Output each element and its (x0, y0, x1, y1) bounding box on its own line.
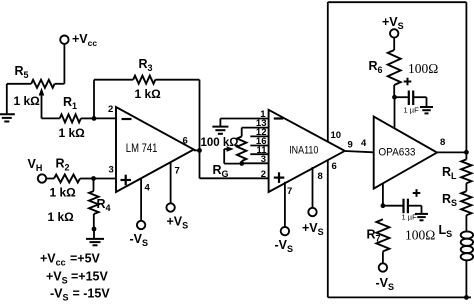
wire (55, 83, 65, 85)
wire (393, 85, 395, 97)
inductor LS (439, 223, 474, 260)
wire (241, 161, 243, 163)
node bottom junction (464, 295, 469, 300)
svg-text:7: 7 (175, 166, 180, 177)
svg-text:6: 6 (332, 161, 337, 172)
op-amp minus input (274, 117, 284, 119)
resistor R7 (367, 219, 390, 251)
svg-text:100 kΩ: 100 kΩ (201, 137, 239, 149)
resistor RL (442, 159, 472, 183)
svg-text:1 kΩ: 1 kΩ (135, 87, 162, 101)
op-amp U1 LM741 (116, 107, 194, 192)
wire (383, 205, 403, 207)
wire (199, 80, 201, 151)
wire pin 7 (170, 163, 172, 204)
wire pin 3 (242, 162, 269, 164)
label supply -VS (50, 286, 110, 302)
label supply +VS (46, 270, 109, 286)
resistor R5 (15, 64, 55, 88)
capacitor C2 1uF (404, 199, 408, 214)
svg-text:2: 2 (261, 169, 266, 180)
wire (382, 251, 384, 263)
svg-text:=+15V: =+15V (71, 270, 109, 284)
wire (93, 179, 95, 192)
ground (86, 239, 104, 245)
wire (413, 97, 426, 107)
resistor R6 (369, 50, 401, 85)
label pin 1 (260, 109, 266, 120)
wire pin 1 (220, 118, 268, 120)
capacitor C1 1uF (409, 91, 413, 106)
label R7 value (405, 228, 435, 243)
resistor R1 (60, 95, 81, 122)
wire R5 wiper (39, 88, 45, 119)
wire (395, 96, 409, 98)
label RG value (201, 137, 239, 149)
svg-text:8: 8 (318, 171, 323, 182)
node +Vcc terminal (60, 32, 97, 48)
node R6 junction (392, 95, 397, 100)
ground (415, 214, 428, 220)
wire (465, 2, 467, 152)
node VH terminal (28, 157, 47, 183)
wire (408, 206, 422, 214)
node RG junction (239, 161, 244, 166)
resistor R2 (54, 157, 80, 183)
label pin 7 (175, 166, 180, 177)
wire (465, 215, 467, 231)
wire (382, 183, 384, 205)
node +VS terminal (382, 15, 404, 38)
node LM741 output junction (197, 148, 202, 153)
wire (63, 44, 65, 84)
label pin 3 (261, 154, 266, 165)
label C2 polarity (413, 189, 421, 197)
label R6 value (408, 61, 438, 76)
ground (420, 107, 433, 113)
wire (94, 79, 133, 81)
op-amp plus input (121, 175, 132, 186)
label pin 11 (256, 145, 267, 156)
wire (81, 117, 94, 119)
svg-text:1 kΩ: 1 kΩ (48, 210, 75, 224)
wire (394, 97, 396, 128)
label R2 value (50, 186, 77, 200)
label pin 3 (109, 165, 114, 176)
svg-text:9: 9 (348, 140, 353, 151)
wire pin 4 (140, 179, 142, 221)
wire (465, 152, 467, 159)
svg-text:OPA633: OPA633 (378, 146, 415, 158)
resistor R4 (89, 191, 111, 214)
node -VS terminal (130, 221, 149, 248)
wire pin 8 (312, 167, 314, 208)
op-amp U2 INA110 (269, 110, 345, 192)
wire (94, 117, 116, 119)
wire pin 7 (284, 182, 286, 227)
op-amp U3 OPA633 (374, 117, 437, 189)
label pin 9 (348, 140, 353, 151)
svg-text:10: 10 (331, 130, 342, 141)
wire (465, 260, 467, 297)
svg-text:2: 2 (108, 104, 113, 115)
wire pin 13 (242, 127, 269, 129)
svg-text:1 kΩ: 1 kΩ (14, 94, 41, 108)
wire RG wiper (224, 146, 242, 163)
wire (155, 79, 199, 81)
wire pin 6 (327, 160, 329, 298)
node A junction (92, 116, 97, 121)
svg-text:1 kΩ: 1 kΩ (59, 126, 86, 140)
svg-text:1 µF: 1 µF (402, 212, 418, 221)
op-amp plus input (274, 172, 285, 183)
wire bottom rail (328, 296, 471, 298)
wire (80, 178, 94, 180)
op-amp minus input (122, 118, 132, 120)
wire (94, 178, 117, 180)
wire (437, 151, 466, 153)
svg-text:4: 4 (145, 183, 151, 194)
svg-text:3: 3 (109, 165, 114, 176)
wire (241, 128, 243, 137)
resistor RS (442, 191, 472, 215)
wire pin 12 (250, 135, 268, 137)
svg-text:INA110: INA110 (289, 144, 318, 156)
wire (199, 150, 201, 178)
node -VS terminal (275, 227, 294, 254)
label R3 value (135, 87, 162, 101)
label pin 6 (332, 161, 337, 172)
wire (465, 183, 467, 191)
resistor RG (213, 137, 247, 180)
ground (0, 114, 15, 121)
wire (93, 214, 95, 229)
node R7 junction (381, 203, 386, 208)
wire (194, 149, 200, 151)
label R4 value (48, 210, 75, 224)
svg-text:LM 741: LM 741 (126, 143, 158, 155)
wire (219, 119, 221, 127)
wire (200, 177, 269, 179)
node +VS terminal (302, 208, 324, 237)
label pin 2 (261, 169, 266, 180)
label pin 6 (183, 136, 188, 147)
svg-text:7: 7 (287, 186, 292, 197)
node R4 ground junction (92, 227, 97, 232)
node +VS terminal (166, 203, 188, 230)
label pin 4 (145, 183, 151, 194)
node output junction (464, 150, 469, 155)
label pin 8 (440, 137, 445, 148)
svg-text:= -15V: = -15V (73, 286, 111, 300)
label R5 value (14, 94, 41, 108)
label pin 10 (331, 130, 342, 141)
wire (42, 117, 60, 119)
wire top rail (328, 1, 467, 3)
wire pin 10 (327, 2, 329, 141)
wire (93, 80, 95, 119)
svg-text:8: 8 (440, 137, 445, 148)
label supply +Vcc (40, 252, 101, 268)
label pin 16 (256, 136, 267, 147)
label C1 polarity (404, 78, 412, 86)
label pin 4 (361, 138, 367, 149)
wire (46, 178, 54, 180)
wire pin 16 (250, 145, 268, 147)
label C1 value (404, 105, 420, 114)
label pin 13 (256, 118, 267, 129)
svg-text:100Ω: 100Ω (405, 228, 435, 243)
wire (93, 229, 95, 239)
svg-text:=+5V: =+5V (70, 252, 101, 266)
label C2 value (402, 212, 418, 221)
wire (7, 84, 31, 114)
svg-text:4: 4 (361, 138, 367, 149)
wire pin 9 (345, 151, 374, 152)
resistor R3 (133, 57, 155, 84)
svg-text:6: 6 (183, 136, 188, 147)
label pin 8 (318, 171, 323, 182)
label pin 7 (287, 186, 292, 197)
node B junction (91, 176, 96, 181)
svg-text:1 µF: 1 µF (404, 105, 420, 114)
label pin 12 (256, 127, 267, 138)
ground (212, 127, 228, 134)
label pin 2 (108, 104, 113, 115)
svg-text:100Ω: 100Ω (408, 61, 438, 76)
svg-text:3: 3 (261, 154, 266, 165)
label R1 value (59, 126, 86, 140)
node -VS terminal (376, 263, 395, 292)
wire pin 11 (250, 153, 268, 155)
svg-text:1 kΩ: 1 kΩ (50, 186, 77, 200)
wire (393, 38, 395, 50)
